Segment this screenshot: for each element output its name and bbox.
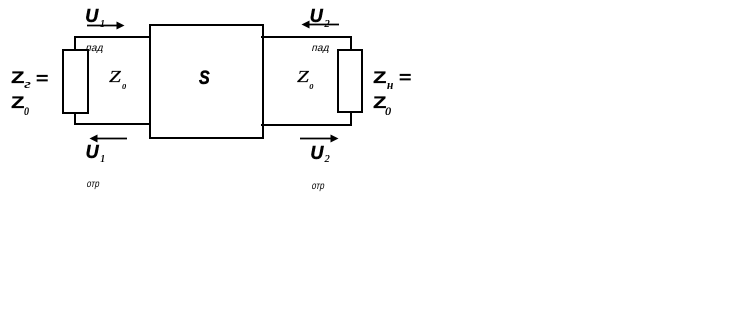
label otr (reflected) right	[310, 182, 325, 192]
resistor Z0 (right termination)	[337, 49, 363, 113]
arrow U2 incident (points left)	[300, 19, 340, 31]
label otr (reflected) left	[85, 180, 100, 190]
wire bottom-right vertical stub	[350, 112, 352, 125]
S-parameter two-port box S	[149, 24, 264, 139]
label U1 incident	[85, 7, 98, 25]
label U1 reflected	[86, 143, 99, 161]
label pad (incident) right	[310, 44, 330, 54]
wire bottom-left vertical stub	[74, 112, 76, 125]
wire top-left horizontal	[74, 36, 151, 38]
label pad (incident) left	[85, 44, 105, 54]
label U2 incident	[310, 7, 323, 25]
label Zg = Z0 (generator impedance, left)	[11, 69, 25, 86]
label S	[199, 69, 210, 89]
label Zn = Z0 (load impedance, right)	[373, 69, 387, 86]
wire top-right horizontal	[261, 36, 352, 38]
wire top-right vertical stub	[350, 36, 352, 51]
resistor Z0 (left termination)	[62, 49, 89, 114]
arrow U1 reflected (points left)	[88, 133, 128, 145]
arrow U1 incident (points right)	[86, 20, 126, 32]
label Z0 (left line impedance)	[109, 68, 121, 85]
wire bottom-right horizontal	[261, 124, 352, 126]
arrow U2 reflected (points right)	[299, 133, 340, 145]
wire bottom-left horizontal	[74, 123, 151, 125]
label U2 reflected	[310, 144, 323, 162]
label Z0 (right line impedance)	[297, 68, 309, 85]
wire top-left vertical stub	[74, 36, 76, 51]
